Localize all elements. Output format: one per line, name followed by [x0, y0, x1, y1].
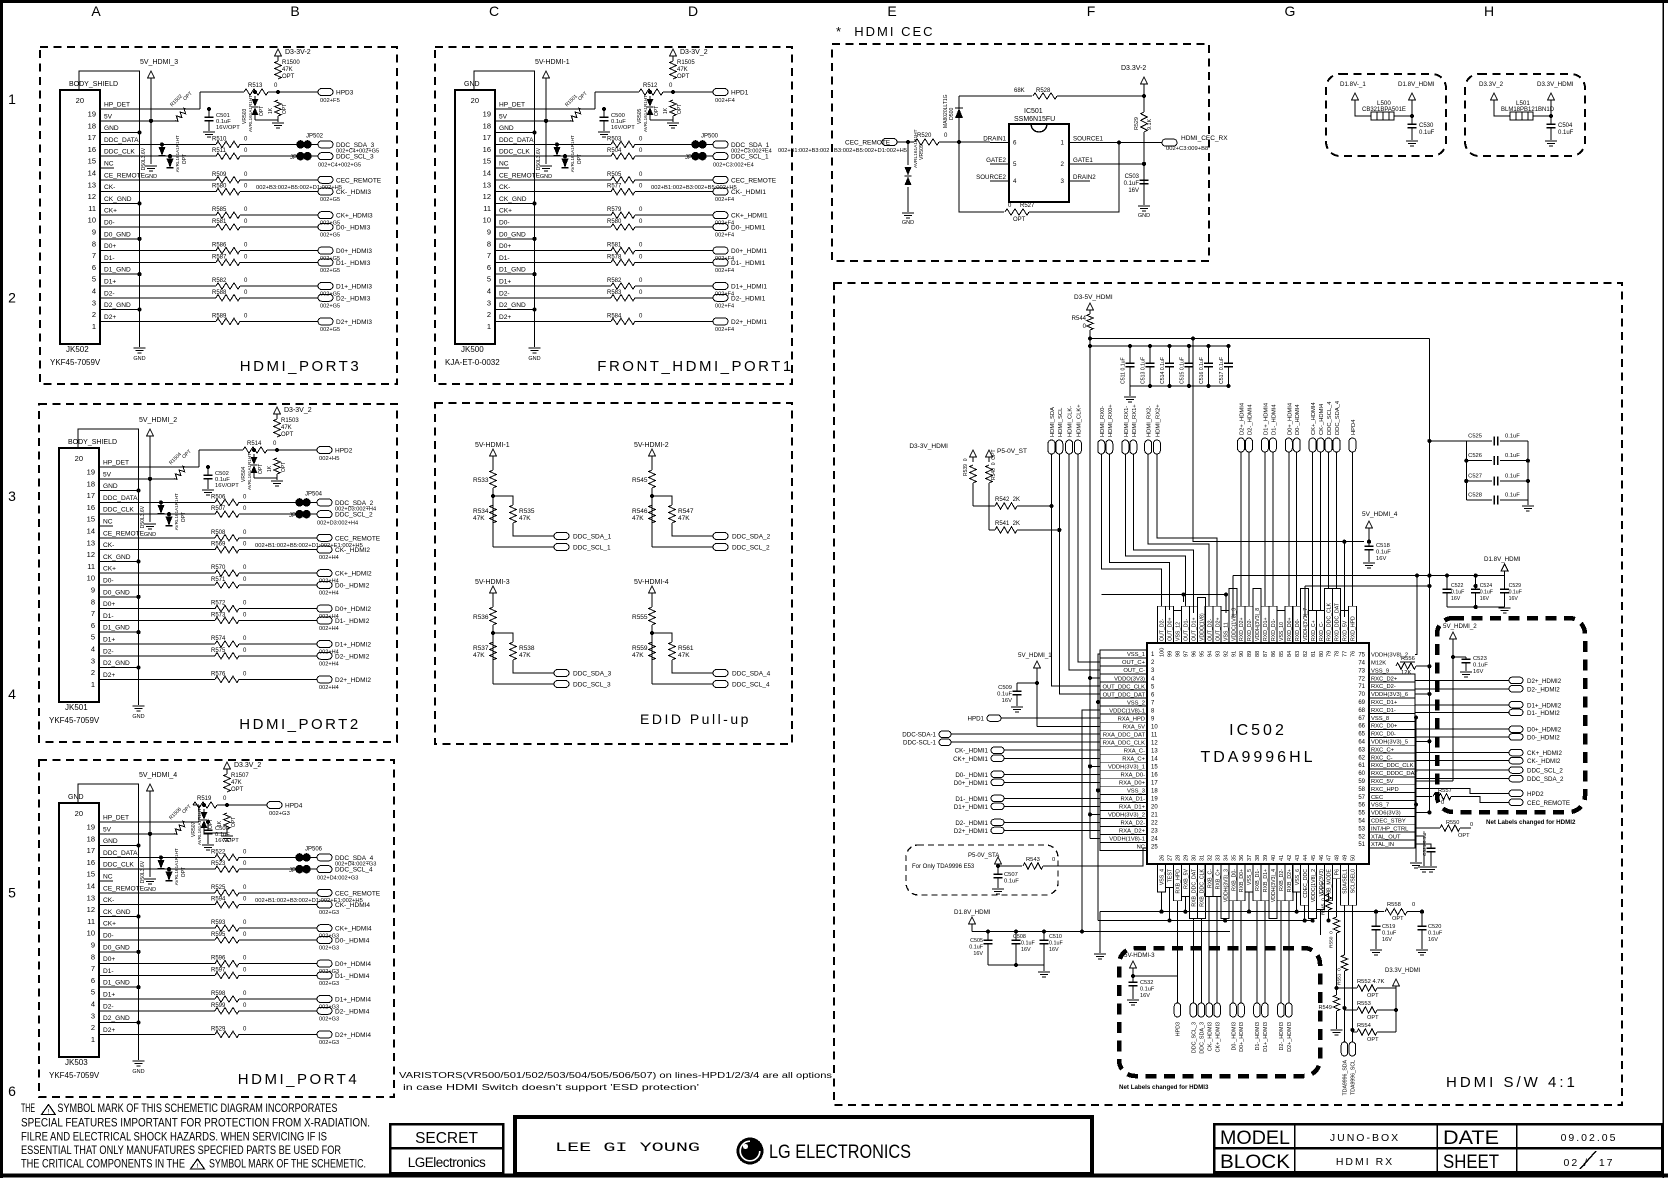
power symbol D3.3V-2	[1141, 77, 1148, 84]
wire cap bottom rail	[988, 964, 1044, 966]
svg-text:VDDH(3V3)_1: VDDH(3V3)_1	[1108, 765, 1145, 771]
net flag CK+_HDMI2	[317, 570, 332, 577]
net flag D1+_HDMI2	[1509, 702, 1523, 709]
svg-text:9: 9	[92, 228, 96, 237]
wire 5V vertical	[149, 791, 151, 877]
svg-text:DDC_SCL_4: DDC_SCL_4	[1327, 401, 1333, 435]
svg-text:CK-_HDMI2: CK-_HDMI2	[335, 547, 370, 554]
svg-text:48: 48	[1335, 855, 1341, 861]
svg-text:27: 27	[1168, 855, 1174, 861]
svg-text:THE CRITICAL COMPONENTS IN THE: THE CRITICAL COMPONENTS IN THE	[21, 1157, 185, 1171]
resistor pulldown 1K OPT	[275, 100, 281, 116]
wire 5V_HDMI_3	[1132, 968, 1134, 982]
svg-text:D0+: D0+	[103, 601, 115, 608]
svg-text:85: 85	[1279, 651, 1285, 657]
svg-text:CK-: CK-	[103, 897, 114, 904]
wire C525 bank rails	[1465, 441, 1467, 500]
svg-text:OPT: OPT	[1367, 1037, 1379, 1043]
svg-text:15: 15	[483, 157, 491, 166]
svg-text:81: 81	[1311, 651, 1317, 657]
svg-text:LGElectronics: LGElectronics	[408, 1155, 486, 1170]
IC502 TDA9996HL body	[1147, 643, 1369, 864]
svg-text:D3-3V_2: D3-3V_2	[284, 407, 312, 414]
svg-text:D1+_HDMI1: D1+_HDMI1	[731, 284, 767, 291]
net stub HDMI_RX2-	[1145, 440, 1152, 454]
svg-text:10: 10	[88, 216, 96, 225]
svg-text:D0-_HDMI3: D0-_HDMI3	[1231, 1022, 1237, 1050]
svg-text:CDEC_STBY: CDEC_STBY	[1371, 819, 1406, 825]
svg-text:CDEC_DDC: CDEC_DDC	[1303, 869, 1309, 898]
svg-text:JP507: JP507	[289, 868, 307, 874]
capacitor C517 0.1uF	[1226, 344, 1230, 348]
svg-text:D3.3V_HDMI: D3.3V_HDMI	[1537, 81, 1574, 88]
resistor R555	[649, 607, 655, 625]
junction dot D500	[957, 140, 961, 144]
ground symbol 5V filter	[144, 523, 156, 525]
wire 1.8V rail A	[1233, 575, 1505, 577]
svg-text:C526: C526	[1468, 453, 1482, 459]
svg-text:BLM18PB121BN1D: BLM18PB121BN1D	[1501, 107, 1555, 113]
svg-text:R549: R549	[1319, 1005, 1332, 1011]
svg-text:19: 19	[88, 110, 96, 119]
net stub HDMI_SCL	[1056, 440, 1063, 454]
svg-text:NC: NC	[499, 161, 509, 168]
svg-text:C507: C507	[1004, 872, 1018, 878]
wire pin39 to D1+_HDMI3	[1264, 901, 1266, 1003]
svg-text:6: 6	[91, 976, 95, 985]
svg-text:C527: C527	[1468, 474, 1482, 480]
svg-text:R581: R581	[607, 243, 622, 249]
capacitor C516 0.1uF	[1207, 344, 1211, 348]
svg-text:R558: R558	[1387, 902, 1401, 908]
svg-text:R514: R514	[247, 441, 262, 447]
wire DDC_SDA_4 to pin 78	[1336, 452, 1338, 589]
svg-text:47K: 47K	[519, 515, 531, 522]
ferrite bead L500 CB321BPA501E	[1355, 100, 1371, 116]
net flag DDC_SCL_2	[713, 544, 728, 551]
svg-text:CK+_HDMI2: CK+_HDMI2	[1527, 750, 1562, 757]
svg-text:16V: 16V	[1428, 937, 1438, 943]
svg-text:R579: R579	[607, 207, 622, 213]
svg-text:0.1uF: 0.1uF	[1140, 987, 1155, 993]
svg-text:0.1uF: 0.1uF	[1473, 663, 1488, 669]
dashed box HDMI_PORT4	[39, 760, 394, 1097]
resistor R578 0	[611, 259, 635, 265]
svg-text:R588: R588	[212, 290, 227, 296]
svg-text:6: 6	[92, 263, 96, 272]
svg-text:4: 4	[487, 287, 491, 296]
svg-text:GND: GND	[103, 483, 118, 490]
svg-text:R594: R594	[211, 897, 226, 903]
svg-text:DDC_SDA_4: DDC_SDA_4	[1335, 400, 1341, 435]
svg-text:0.1uF: 0.1uF	[1505, 434, 1520, 440]
svg-text:16V: 16V	[1128, 188, 1139, 194]
svg-text:80: 80	[1319, 651, 1325, 657]
svg-text:HDMI_RX2+: HDMI_RX2+	[1155, 404, 1161, 437]
svg-text:DDC_SCL_3: DDC_SCL_3	[336, 154, 374, 161]
svg-text:R569: R569	[211, 542, 226, 548]
svg-text:DDC_DATA: DDC_DATA	[103, 495, 138, 502]
net flag CK-_HDMI2	[1509, 757, 1523, 764]
svg-text:RXD_D0+: RXD_D0+	[1287, 618, 1293, 642]
svg-text:AVRL161A1R1HT: AVRL161A1R1HT	[174, 493, 179, 530]
svg-text:14: 14	[1151, 757, 1158, 763]
ferrite bead L501 BLM18PB121BN1D	[1494, 100, 1510, 116]
svg-text:R1505: R1505	[677, 60, 695, 66]
svg-text:CK-_HDMI3: CK-_HDMI3	[336, 189, 371, 196]
svg-text:D3.3V_2: D3.3V_2	[1479, 81, 1504, 88]
svg-text:RXB_D1+: RXB_D1+	[1263, 869, 1269, 892]
svg-text:15: 15	[88, 157, 96, 166]
svg-text:VSS_6: VSS_6	[1295, 869, 1301, 885]
svg-text:BLOCK: BLOCK	[1220, 1152, 1290, 1173]
svg-text:R535: R535	[519, 508, 535, 515]
svg-text:C519: C519	[1382, 924, 1395, 930]
svg-text:5V: 5V	[104, 113, 113, 120]
svg-text:20: 20	[75, 809, 83, 818]
svg-text:16: 16	[87, 503, 95, 512]
svg-text:OUT_D2-: OUT_D2-	[1160, 619, 1166, 641]
wire pin36 to D0+_HDMI3	[1240, 901, 1242, 1003]
resistor R536	[490, 607, 496, 625]
resistor R593 0	[215, 925, 239, 931]
wire BODY_SHIELD bracket to GND bus	[78, 429, 139, 705]
svg-text:29: 29	[1184, 855, 1190, 861]
varistor D50L3.6V cluster	[554, 147, 561, 156]
svg-text:R536: R536	[473, 614, 489, 621]
svg-text:DDC-SDA-1: DDC-SDA-1	[902, 732, 936, 739]
resistor R520	[915, 139, 939, 145]
wire 5V-HDMI-3 vertical	[492, 593, 494, 607]
svg-text:D0+_HDMI1: D0+_HDMI1	[731, 248, 767, 255]
svg-text:RXC_C-: RXC_C-	[1371, 755, 1393, 761]
svg-text:4: 4	[92, 287, 96, 296]
svg-text:OPT: OPT	[654, 106, 660, 116]
svg-text:OUT_DDC_DAT: OUT_DDC_DAT	[1103, 692, 1146, 698]
svg-text:C516 0.1uF: C516 0.1uF	[1199, 357, 1205, 384]
net flag D0+_HDMI4	[317, 960, 332, 967]
svg-text:RXA_D1+: RXA_D1+	[1119, 805, 1146, 811]
resistor R535 47K	[510, 505, 516, 523]
wire DDC-SCL-1 to pin12	[951, 741, 1100, 743]
wire R527 to SOURCE1 node	[1029, 143, 1119, 212]
svg-text:D2-_HDMI2: D2-_HDMI2	[335, 653, 370, 660]
net flag DDC_SDA_3	[318, 141, 333, 148]
svg-text:42: 42	[1287, 855, 1293, 861]
net flag D0+_HDMI3	[1238, 1003, 1245, 1017]
svg-text:HPD2: HPD2	[1527, 791, 1544, 798]
svg-text:63: 63	[1358, 747, 1365, 753]
svg-text:GND: GND	[540, 174, 552, 180]
resistor R576 0	[215, 676, 239, 682]
capacitor C530 0.1uF	[1408, 123, 1417, 125]
net flag D2-_HDMI3	[1278, 1003, 1285, 1017]
wire HDMI_RX2+ jog to pin93	[1157, 454, 1217, 606]
svg-text:002+F4: 002+F4	[715, 233, 734, 239]
svg-text:5V_HDMI_2: 5V_HDMI_2	[1443, 623, 1477, 630]
wire VDDC vertical x1082	[1082, 710, 1100, 931]
junction dot	[1142, 162, 1146, 166]
svg-text:10: 10	[483, 216, 491, 225]
svg-text:09.02.05: 09.02.05	[1561, 1132, 1618, 1144]
svg-text:D2-_HDMI2: D2-_HDMI2	[1527, 686, 1560, 693]
net flag D2-_HDMI2	[1509, 686, 1523, 693]
svg-text:HPD3: HPD3	[1176, 1022, 1182, 1036]
wire D1-_HDMI1 to pin19	[1004, 797, 1100, 799]
wire D0-_HDMI1 to pin16	[1004, 773, 1100, 775]
pin row wires	[495, 108, 595, 110]
svg-text:6: 6	[8, 1083, 16, 1099]
svg-text:D1+_HDMI4: D1+_HDMI4	[1263, 402, 1269, 435]
net flag D1-_HDMI2	[317, 617, 332, 624]
junction dots on GND bus	[532, 131, 536, 135]
net stub D2-_HDMI4	[1246, 438, 1253, 452]
svg-text:D1+_HDMI3: D1+_HDMI3	[1263, 1022, 1269, 1052]
svg-text:P5-0V_ST: P5-0V_ST	[997, 448, 1027, 455]
svg-text:RXB_D2+: RXB_D2+	[1287, 869, 1293, 892]
resistor pulldown 1K OPT	[274, 458, 280, 474]
svg-text:HDMI_SCL: HDMI_SCL	[1058, 407, 1064, 437]
svg-text:D2-_HDMI3: D2-_HDMI3	[1279, 1022, 1285, 1050]
svg-text:16V: 16V	[1002, 698, 1012, 704]
svg-text:D1-_HDMI3: D1-_HDMI3	[1255, 1022, 1261, 1050]
svg-text:D2+: D2+	[103, 672, 115, 679]
svg-text:39: 39	[1263, 855, 1269, 861]
svg-text:20: 20	[76, 96, 84, 105]
net stub HDMI_RX2+	[1153, 440, 1160, 454]
svg-text:56: 56	[1358, 803, 1365, 809]
svg-text:VSS_5: VSS_5	[1247, 869, 1253, 885]
svg-text:GND: GND	[132, 1069, 144, 1075]
svg-text:16V: 16V	[1021, 947, 1031, 953]
svg-text:VSS_11: VSS_11	[1223, 622, 1229, 641]
wire BODY_SHIELD bracket to GND bus	[79, 71, 140, 347]
resistor R504 0	[611, 153, 635, 159]
svg-text:VSS_12: VSS_12	[1176, 622, 1182, 641]
svg-text:SCL/SEL0: SCL/SEL0	[1351, 869, 1357, 893]
svg-text:5: 5	[91, 988, 95, 997]
net flag D0-_HDMI3	[318, 224, 333, 231]
svg-text:GND: GND	[68, 794, 84, 801]
net flag HDMI_CEC_RX	[1162, 139, 1177, 146]
svg-text:OUT_C+: OUT_C+	[1122, 660, 1146, 666]
wire pin45 down	[1312, 918, 1314, 920]
capacitor C501 0.1uF	[207, 107, 211, 111]
svg-text:59: 59	[1358, 779, 1365, 785]
svg-text:D3.3V_HDMI: D3.3V_HDMI	[1385, 968, 1421, 974]
wire HP_DET riser	[199, 92, 201, 109]
filter dashed box L500	[1326, 74, 1446, 156]
net flag CEC_REMOTE	[317, 889, 332, 896]
svg-text:VSS_1: VSS_1	[1127, 652, 1145, 658]
ground symbol bottom caps	[1038, 971, 1050, 973]
resistor R595 0	[215, 937, 239, 943]
svg-text:13: 13	[87, 893, 95, 902]
svg-text:9.1K: 9.1K	[1147, 119, 1153, 130]
svg-text:DDC_CLK: DDC_CLK	[104, 149, 135, 156]
resistor R558 0 OPT	[1385, 909, 1407, 915]
wire XTAL_OUT down	[1415, 836, 1424, 866]
svg-text:D2_GND: D2_GND	[499, 302, 526, 309]
svg-text:R1507: R1507	[231, 773, 249, 779]
svg-text:75: 75	[1358, 653, 1365, 659]
HDMI CEC dashed box	[832, 44, 1209, 261]
svg-text:D0-: D0-	[499, 220, 510, 227]
svg-text:R589: R589	[212, 313, 227, 319]
capacitor C502 0.1uF	[206, 465, 210, 469]
svg-text:97: 97	[1184, 651, 1190, 657]
svg-text:GND: GND	[144, 532, 156, 538]
svg-text:D1+_HDMI3: D1+_HDMI3	[336, 284, 372, 291]
resistor R540 0 OPT	[988, 457, 990, 462]
svg-text:51: 51	[1358, 842, 1365, 848]
svg-text:HP_DET: HP_DET	[104, 102, 130, 109]
svg-text:0: 0	[1052, 857, 1055, 863]
svg-text:16V: 16V	[1376, 556, 1386, 562]
varistor D50L3.6V cluster	[159, 147, 166, 156]
svg-text:HDMI_CEC_RX: HDMI_CEC_RX	[1181, 135, 1228, 142]
wire pin71 to D2-_HDMI2	[1415, 688, 1509, 690]
svg-text:0: 0	[1412, 902, 1415, 908]
svg-text:89: 89	[1247, 651, 1253, 657]
svg-text:C510: C510	[1049, 934, 1062, 940]
svg-text:R1500: R1500	[282, 60, 300, 66]
svg-text:OUT_C-: OUT_C-	[1123, 668, 1145, 674]
svg-text:VDDO(1V8): VDDO(1V8)	[1200, 613, 1206, 641]
wire pin27 down	[1169, 888, 1171, 921]
svg-text:DDC_SCL_4: DDC_SCL_4	[335, 867, 373, 874]
svg-text:D0-_HDMI1: D0-_HDMI1	[955, 772, 988, 779]
wire bead to cap	[1533, 115, 1551, 117]
svg-text:83: 83	[1295, 651, 1301, 657]
svg-text:0.1uF: 0.1uF	[1509, 590, 1522, 596]
svg-text:D0-_HDMI2: D0-_HDMI2	[335, 583, 370, 590]
wire R541 to HDMI_SCL	[1017, 529, 1059, 531]
resistor R508 0	[215, 535, 239, 541]
capacitor C507 0.1uF	[997, 866, 999, 874]
svg-text:D2_GND: D2_GND	[103, 660, 130, 667]
wire 5V-HDMI-2 vertical	[651, 456, 653, 470]
svg-text:IC501: IC501	[1024, 108, 1043, 115]
svg-text:3: 3	[91, 656, 95, 665]
svg-text:OPT: OPT	[1392, 916, 1404, 922]
svg-text:VSS_10: VSS_10	[1279, 622, 1285, 641]
svg-text:R554: R554	[1357, 1023, 1372, 1029]
svg-text:82: 82	[1303, 651, 1309, 657]
svg-text:12: 12	[483, 192, 491, 201]
net flag HPD4	[267, 802, 282, 809]
svg-text:18: 18	[483, 121, 491, 130]
net flag D1-_HDMI1	[713, 259, 728, 266]
svg-text:58: 58	[1358, 787, 1365, 793]
wire pin43 down	[1296, 892, 1298, 912]
svg-text:16V: 16V	[1509, 596, 1519, 602]
svg-text:002+G3: 002+G3	[319, 946, 339, 952]
svg-text:D2+_HDMI3: D2+_HDMI3	[1287, 1022, 1293, 1052]
svg-text:R578: R578	[607, 254, 622, 260]
net flag D2+_HDMI2	[317, 676, 332, 683]
resistor R574 0	[215, 641, 239, 647]
svg-text:R511: R511	[212, 148, 227, 154]
svg-text:DRAIN2: DRAIN2	[1073, 174, 1096, 181]
svg-text:C521 0.1uF: C521 0.1uF	[1422, 831, 1428, 856]
svg-text:D0-: D0-	[103, 933, 114, 940]
svg-text:BODY_SHIELD: BODY_SHIELD	[68, 439, 117, 446]
svg-text:RXC_DDC_CLK: RXC_DDC_CLK	[1371, 763, 1414, 769]
svg-text:RXD_HPD: RXD_HPD	[1351, 616, 1357, 641]
svg-text:RXD_DDC_CLK: RXD_DDC_CLK	[1327, 602, 1333, 641]
resistor R596 0	[215, 960, 239, 966]
resistor pulldown 1K OPT	[224, 813, 230, 829]
ground symbol for shield bus	[133, 705, 145, 707]
net flag D1+_HDMI3	[318, 283, 333, 290]
ground symbol 5V filter	[144, 878, 156, 880]
svg-text:D0_GND: D0_GND	[103, 944, 130, 951]
resistor R510 0	[216, 141, 240, 147]
junction dots on GND bus	[136, 489, 140, 493]
wire pin63 to CK+_HDMI2	[1415, 752, 1509, 754]
svg-text:D1_GND: D1_GND	[499, 267, 526, 274]
svg-text:47K: 47K	[519, 652, 531, 659]
svg-text:CK-: CK-	[499, 184, 510, 191]
power symbol D3.3V_HDMI	[1393, 979, 1400, 986]
svg-text:CEC: CEC	[1371, 795, 1383, 801]
svg-text:!: !	[48, 1109, 50, 1116]
resistor R529 9.1K	[1141, 112, 1147, 132]
dashed box HDMI_PORT2	[39, 404, 397, 742]
resistor R1502 diagonal	[175, 108, 186, 121]
svg-text:NC: NC	[104, 161, 114, 168]
svg-text:D50L3.6V: D50L3.6V	[140, 505, 146, 528]
svg-text:15: 15	[1151, 765, 1158, 771]
svg-text:R598: R598	[211, 991, 226, 997]
svg-text:DDC_SCL_1: DDC_SCL_1	[573, 545, 611, 552]
net flag DDC_SDA_3	[1198, 1003, 1205, 1017]
resistor R551 0 vertical	[1341, 955, 1347, 971]
svg-text:HDMI_RX1-: HDMI_RX1-	[1124, 406, 1130, 437]
svg-text:74: 74	[1358, 661, 1365, 667]
net stub HDMI_RX1+	[1130, 440, 1137, 454]
net stub HDMI_SDA	[1048, 440, 1055, 454]
net flag HPD1	[713, 89, 728, 96]
svg-text:0.1uF: 0.1uF	[997, 692, 1012, 698]
svg-text:CK+: CK+	[103, 566, 116, 573]
svg-text:12: 12	[87, 905, 95, 914]
svg-text:D0+_HDMI3: D0+_HDMI3	[1239, 1022, 1245, 1052]
diode D500 MA8020LLT1G	[958, 96, 960, 142]
junction dot	[1117, 141, 1121, 145]
svg-text:18: 18	[1151, 789, 1158, 795]
resistor R554	[1357, 1029, 1377, 1035]
svg-text:12K: 12K	[1401, 670, 1411, 676]
svg-text:DDC_DATA: DDC_DATA	[104, 137, 139, 144]
resistor R534 47K	[490, 505, 496, 523]
svg-text:D0+_HDMI2: D0+_HDMI2	[335, 606, 371, 613]
wire SOURCE1 to HDMI_CEC_RX	[1090, 142, 1162, 144]
svg-text:D2-: D2-	[103, 648, 114, 655]
svg-text:NC: NC	[103, 874, 113, 881]
wire pin32 to CK-_HDMI3	[1208, 896, 1210, 1003]
svg-text:DDC_SCL_2: DDC_SCL_2	[1527, 768, 1563, 775]
warning triangle 2	[191, 1159, 205, 1169]
svg-text:45: 45	[1311, 855, 1317, 861]
svg-text:OUT_D1+: OUT_D1+	[1192, 618, 1198, 642]
jumper JP503	[296, 152, 304, 160]
svg-text:R586: R586	[212, 243, 227, 249]
svg-text:002+G5: 002+G5	[320, 233, 340, 239]
wire branch	[652, 496, 672, 505]
svg-text:L501: L501	[1516, 100, 1530, 107]
